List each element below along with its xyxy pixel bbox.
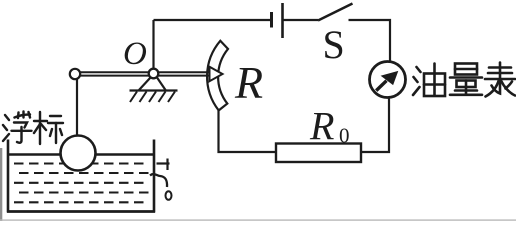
lever rod (wiper arm) double line xyxy=(80,71,210,73)
wire from battery to switch xyxy=(284,19,319,21)
resistor R0 body xyxy=(276,144,361,163)
potentiometer R curved resistive strip xyxy=(207,41,228,111)
battery cell: long positive plate xyxy=(281,3,284,38)
switch S open blade xyxy=(318,4,353,21)
tap spout xyxy=(150,174,167,187)
svg-text:O: O xyxy=(123,36,147,72)
wire from meter down to bottom-right corner xyxy=(362,98,389,153)
wire from top down to pivot O xyxy=(152,20,154,68)
pivot O circle xyxy=(149,69,159,79)
pivot support triangle legs xyxy=(139,78,151,91)
svg-text:R: R xyxy=(234,57,263,108)
liquid dashed lines xyxy=(14,164,149,203)
meter needle arrow xyxy=(376,71,398,91)
tap droplet xyxy=(166,191,172,200)
svg-text:R: R xyxy=(309,104,334,149)
label 油量表 (fuel gauge) drawn strokes xyxy=(413,63,515,97)
wire from switch contact to top-right corner xyxy=(349,20,391,61)
wire bottom from resistor R0 to potentiometer bottom terminal xyxy=(219,106,277,152)
svg-text:0: 0 xyxy=(339,124,350,148)
tank left wall xyxy=(7,140,10,213)
tap handle T xyxy=(157,162,170,164)
rod from lever left end down to float xyxy=(76,79,78,136)
char 量 xyxy=(450,64,482,95)
battery cell: short negative plate xyxy=(270,12,273,28)
wire top from node above pivot O to battery negative plate xyxy=(154,19,271,21)
char 油 xyxy=(413,64,445,97)
ground hatch line under pivot xyxy=(130,89,178,91)
char 浮 xyxy=(3,112,32,143)
ground hatch marks xyxy=(130,92,175,103)
tank bottom xyxy=(7,210,155,213)
lever left end hinge circle xyxy=(70,69,80,79)
char 标 xyxy=(34,112,63,144)
wiper arrowhead (hollow) xyxy=(210,67,223,81)
scan artifact: left edge gray streak xyxy=(0,148,2,221)
float ball xyxy=(61,136,96,171)
char 表 xyxy=(485,63,515,97)
meter U1 (fuel gauge) circle xyxy=(370,62,406,98)
tank right wall xyxy=(153,140,156,213)
scan artifact: bottom edge faint line xyxy=(0,219,516,220)
svg-text:S: S xyxy=(323,22,345,67)
liquid surface line xyxy=(9,153,153,156)
label 浮标 (float) drawn strokes xyxy=(3,112,63,145)
